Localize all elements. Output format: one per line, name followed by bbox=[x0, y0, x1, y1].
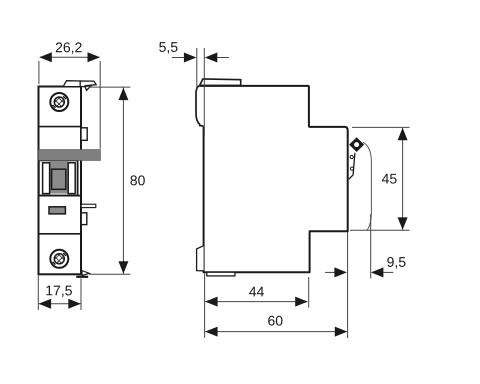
breaker body outline (front view) bbox=[39, 87, 82, 275]
dim 26,2 text bbox=[56, 42, 82, 54]
dim 5,5 extension lines bbox=[196, 48, 198, 90]
top busbar tab (trapezoid) bbox=[63, 81, 80, 87]
dim 17,5 extension lines bbox=[37, 276, 39, 311]
top terminal divider line bbox=[39, 126, 81, 128]
right small rect bbox=[81, 213, 87, 225]
bottom DIN clip black bar bbox=[76, 276, 88, 278]
label window bbox=[49, 207, 65, 214]
DIN clip stub hole bbox=[354, 142, 359, 147]
top busbar clip flag bbox=[80, 81, 96, 87]
side front bulge bbox=[196, 86, 204, 127]
dim 26,2 extension lines bbox=[38, 61, 40, 84]
dim 60 line and arrows bbox=[205, 331, 347, 333]
dim 26,2 line and arrows bbox=[40, 56, 100, 58]
top right clip rectangle bbox=[81, 128, 87, 141]
dim 80 text bbox=[130, 175, 144, 185]
dim 44 extension lines bbox=[204, 274, 206, 338]
divider below toggle bbox=[39, 195, 82, 197]
dim 45 extension lines bbox=[352, 126, 410, 128]
toggle left white strip bbox=[43, 163, 50, 194]
dim 17,5 text bbox=[46, 286, 72, 297]
dim 80 extension lines bbox=[89, 86, 130, 88]
right thin bar bbox=[81, 204, 96, 207]
toggle handle inner rect bbox=[52, 169, 66, 189]
dim 60 text bbox=[268, 316, 282, 326]
DIN clip rivet 2 bbox=[350, 167, 353, 170]
dim 5,5 arrows bbox=[172, 57, 185, 59]
side bottom front foot bbox=[197, 246, 204, 271]
dim 5,5 text bbox=[159, 42, 177, 53]
side top tab bbox=[200, 79, 241, 86]
bottom terminal screw bbox=[50, 250, 68, 268]
top terminal screw bbox=[50, 93, 68, 111]
DIN clip curve (spring outline) bbox=[363, 142, 372, 230]
toggle gray column bbox=[49, 161, 68, 194]
bottom DIN clip triangle bbox=[82, 271, 90, 276]
dim 9,5 extension lines bbox=[347, 232, 349, 338]
DIN clip diamond stub bbox=[349, 137, 364, 152]
dim 80 line bbox=[122, 88, 124, 274]
top clip tail hook bbox=[85, 86, 91, 90]
divider above bottom terminal bbox=[39, 233, 81, 235]
side bottom tab bbox=[207, 272, 235, 276]
dim 44 line and arrows bbox=[205, 301, 307, 303]
dim 45 text bbox=[382, 174, 397, 184]
toggle recess box bbox=[39, 160, 78, 195]
dim 45 line bbox=[402, 128, 404, 230]
gray face band bbox=[39, 150, 101, 161]
toggle right white strip bbox=[68, 163, 75, 194]
DIN clip rivet 1 bbox=[350, 155, 353, 158]
dim 9,5 arrows bbox=[325, 271, 336, 273]
DIN clip strip bbox=[349, 153, 355, 179]
dim 9,5 text bbox=[387, 257, 405, 269]
side body outline bbox=[200, 86, 348, 272]
dim 44 text bbox=[249, 287, 264, 297]
dim 17,5 line and arrows bbox=[39, 303, 80, 305]
